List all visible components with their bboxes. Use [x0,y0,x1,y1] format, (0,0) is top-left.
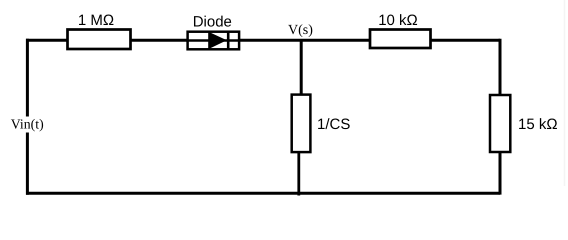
svg-text:Diode: Diode [193,13,232,30]
svg-text:15 kΩ: 15 kΩ [518,116,558,133]
svg-text:1/CS: 1/CS [317,116,350,133]
svg-text:1 MΩ: 1 MΩ [78,12,114,29]
svg-text:Vin(t): Vin(t) [11,117,44,132]
svg-text:V(s): V(s) [288,23,313,38]
svg-text:10 kΩ: 10 kΩ [378,12,418,29]
